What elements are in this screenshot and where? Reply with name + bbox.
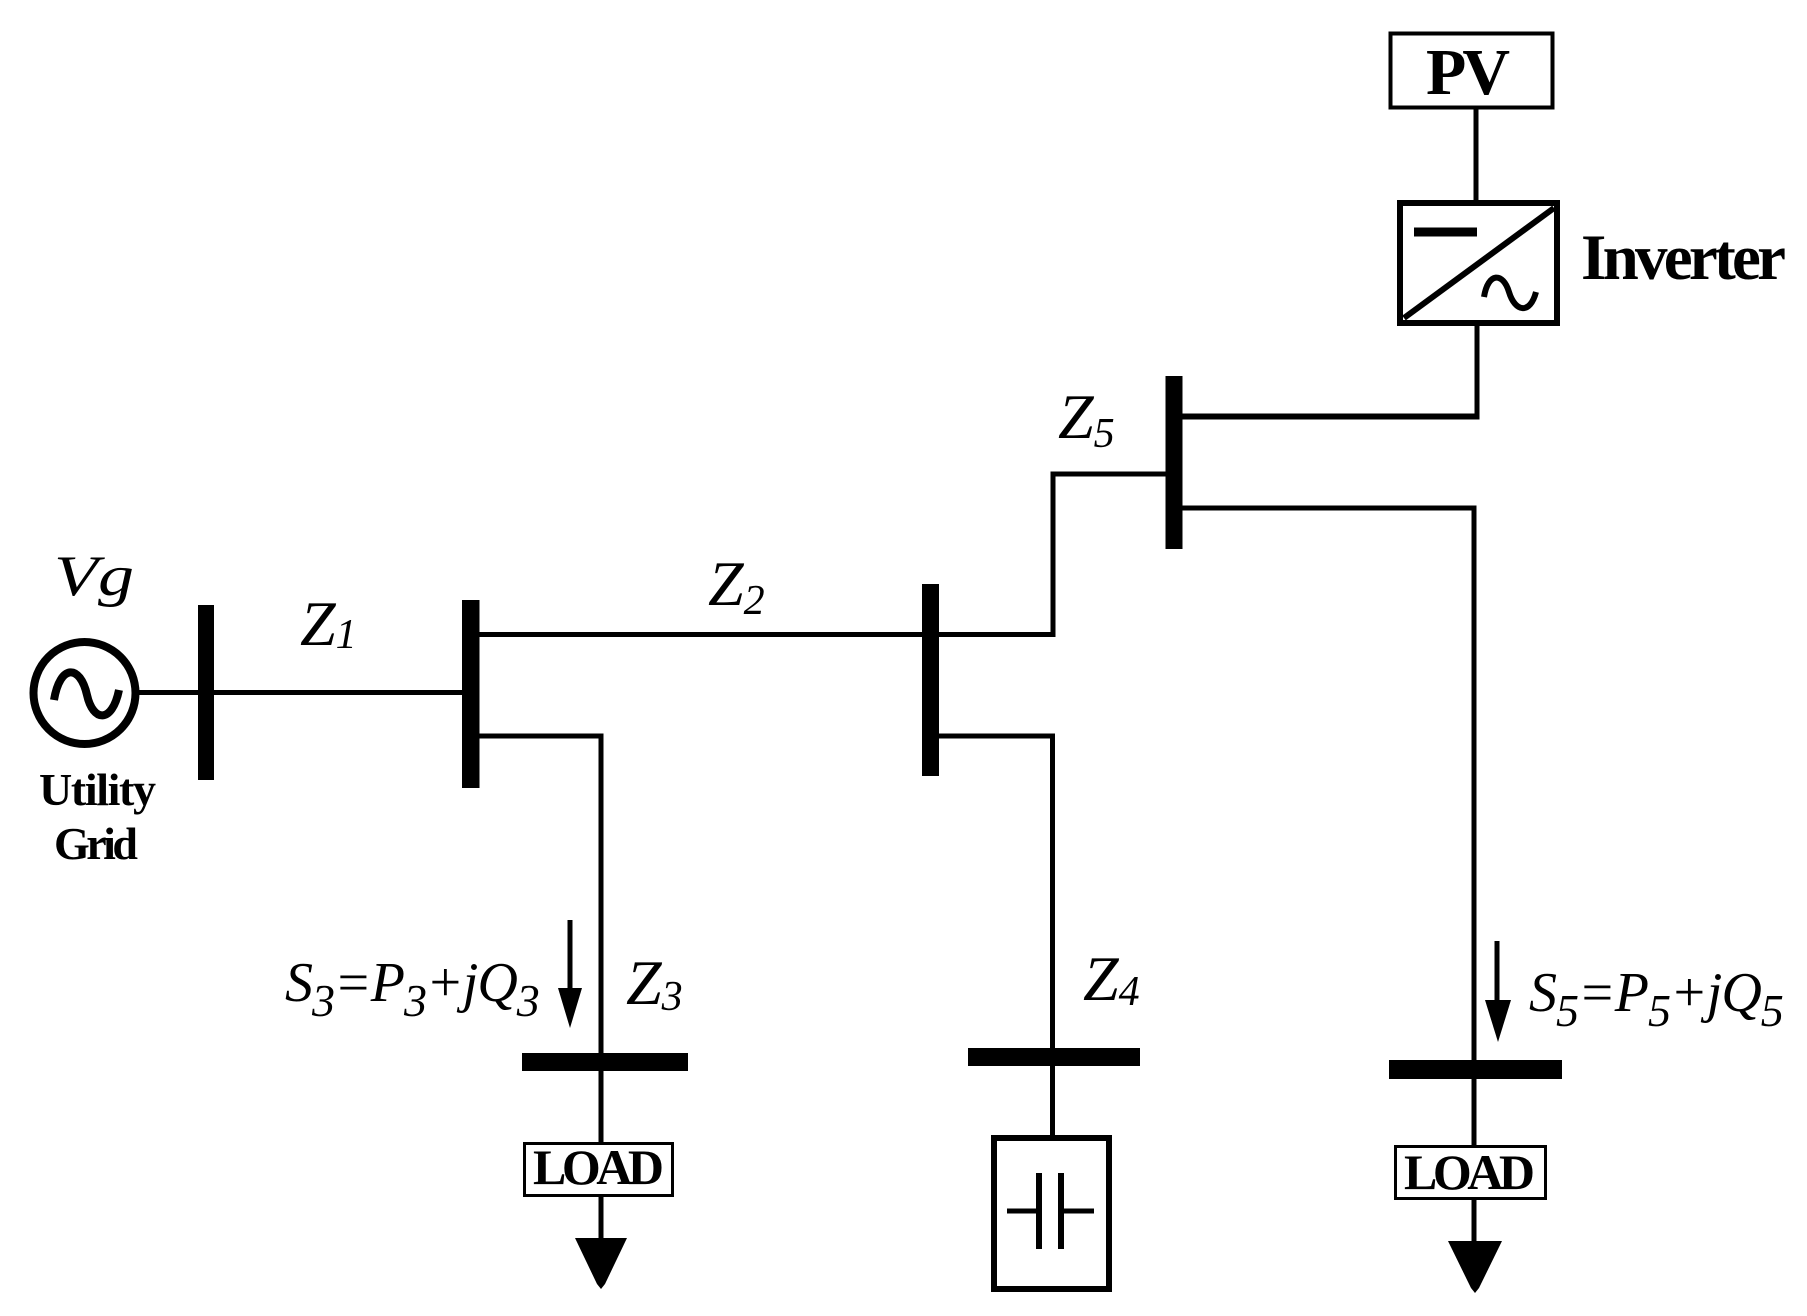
inverter U1 box xyxy=(1400,203,1557,323)
arrow load 3 xyxy=(575,1238,627,1289)
arrow S5 current direction xyxy=(1485,941,1511,1042)
bus 5 xyxy=(1166,376,1183,549)
svg-text:PV: PV xyxy=(1426,36,1510,109)
svg-text:LOAD: LOAD xyxy=(1404,1144,1535,1200)
wire Z4 branch xyxy=(937,736,1053,1138)
wire bus5 to inverter horizontal xyxy=(1180,414,1480,420)
bus 5 load bar xyxy=(1389,1060,1562,1079)
inverter diagonal xyxy=(1404,208,1554,318)
svg-text:LOAD: LOAD xyxy=(533,1139,664,1195)
bus 1 xyxy=(462,600,480,788)
svg-text:Utility: Utility xyxy=(39,764,156,815)
wire PV to inverter xyxy=(1474,107,1479,205)
wire source to bus 0 xyxy=(136,690,200,695)
capacitor bus bar 4 xyxy=(968,1048,1140,1066)
capacitor C plates xyxy=(1007,1173,1094,1249)
inverter AC sine xyxy=(1484,278,1536,309)
wire Z2 xyxy=(478,632,1055,637)
wire inverter to bus 5 xyxy=(1475,323,1480,420)
bus 3 load bar xyxy=(522,1053,688,1071)
svg-text:Vg: Vg xyxy=(54,545,134,608)
load box 5 xyxy=(1396,1147,1546,1199)
source Vg circle xyxy=(34,642,136,744)
PV array box xyxy=(1391,34,1553,108)
bus 0 grid bus xyxy=(198,605,214,780)
source Vg sine xyxy=(54,672,119,715)
wire Z5 branch xyxy=(1053,474,1166,637)
arrow S3 current direction xyxy=(558,920,582,1028)
svg-text:Inverter: Inverter xyxy=(1581,222,1786,294)
arrow load 5 xyxy=(1448,1241,1502,1293)
capacitor bank box xyxy=(994,1138,1109,1289)
inverter DC symbol xyxy=(1414,228,1477,237)
load box 3 xyxy=(525,1144,673,1196)
wire Z3 branch xyxy=(478,736,601,1252)
wire bus5 to load 5 xyxy=(1182,508,1474,1255)
bus 2 xyxy=(922,584,939,776)
wire Z1 xyxy=(214,690,463,695)
svg-text:Grid: Grid xyxy=(54,818,138,869)
